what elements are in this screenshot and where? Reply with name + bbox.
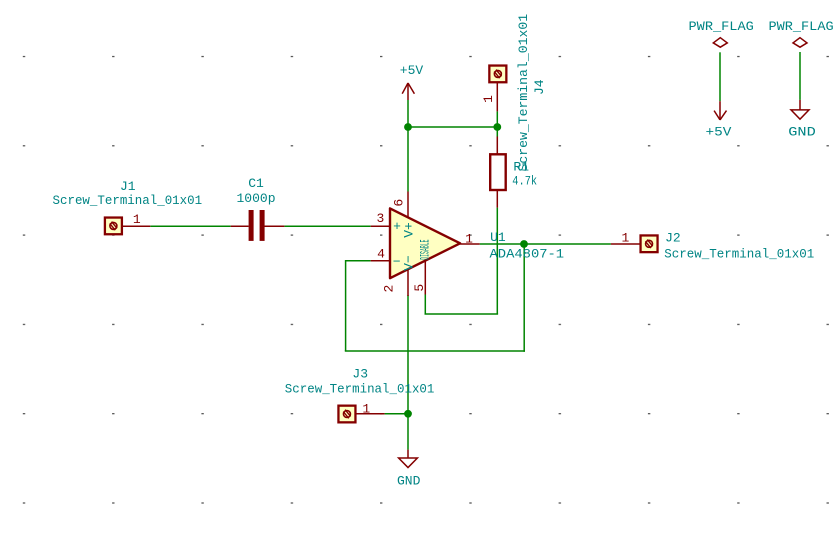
svg-text:1: 1 xyxy=(362,402,370,417)
svg-text:PWR_FLAG: PWR_FLAG xyxy=(689,19,754,34)
connector J3 xyxy=(338,406,384,423)
wire C1 to U1 pin 3 xyxy=(284,225,370,227)
wire J1 to C1 xyxy=(150,225,230,227)
PWR_FLAG 2 flag xyxy=(793,38,807,48)
svg-text:1: 1 xyxy=(621,230,629,245)
label GND xyxy=(397,473,421,488)
power +5V symbol xyxy=(402,83,414,100)
label PWR_FLAG 1 xyxy=(689,19,754,34)
svg-text:1: 1 xyxy=(133,212,141,227)
svg-text:6: 6 xyxy=(392,199,407,207)
svg-text:J4: J4 xyxy=(532,79,547,95)
value Screw_Terminal_01x01 of J3 xyxy=(285,382,435,397)
svg-text:1: 1 xyxy=(481,95,496,103)
pin 4 of U1 xyxy=(377,246,385,261)
wire pin 5 vertical xyxy=(424,295,426,315)
label J4 vertical xyxy=(532,79,547,95)
svg-text:Screw_Terminal_01x01: Screw_Terminal_01x01 xyxy=(53,193,203,208)
wire +5V vertical xyxy=(407,100,409,192)
label GND under PWR_FLAG 2 xyxy=(788,124,816,139)
pin 1 of J1 xyxy=(133,212,141,227)
pin name plus of U1 xyxy=(393,219,401,234)
label PWR_FLAG 2 xyxy=(769,19,834,34)
svg-text:4.7k: 4.7k xyxy=(512,174,537,189)
svg-text:1: 1 xyxy=(465,232,473,247)
value Screw_Terminal_01x01 of J4 vertical xyxy=(516,14,531,172)
wire J4 to R1 xyxy=(496,111,498,136)
connector J1 xyxy=(105,218,150,235)
pin 1 of J2 xyxy=(621,230,629,245)
svg-text:2: 2 xyxy=(382,285,397,293)
junction at J3 xyxy=(404,410,412,418)
wire feedback bottom xyxy=(345,350,525,352)
power +5V symbol under PWR_FLAG 1 xyxy=(714,101,726,120)
svg-text:GND: GND xyxy=(788,124,816,139)
value 4.7k of R1 xyxy=(512,174,537,189)
capacitor C1 xyxy=(231,210,285,241)
value Screw_Terminal_01x01 of J2 xyxy=(664,246,814,261)
pin name DISABLE of U1 vertical xyxy=(418,239,433,259)
value 1000p of C1 xyxy=(236,191,275,206)
wire feedback right vertical xyxy=(523,244,525,352)
svg-text:J3: J3 xyxy=(352,367,368,382)
svg-text:DISABLE: DISABLE xyxy=(418,239,433,259)
label +5V under PWR_FLAG 1 xyxy=(706,124,732,139)
svg-text:−: − xyxy=(393,255,401,270)
junction at output xyxy=(520,240,528,248)
value ADA4807-1 of U1 xyxy=(490,247,565,262)
label +5V xyxy=(400,63,424,78)
svg-text:Screw_Terminal_01x01: Screw_Terminal_01x01 xyxy=(516,14,531,172)
ground GND symbol xyxy=(399,450,418,468)
svg-text:4: 4 xyxy=(377,246,385,261)
wire output row xyxy=(480,243,611,245)
label J1 xyxy=(120,179,136,194)
svg-text:ADA4807-1: ADA4807-1 xyxy=(490,247,565,262)
pin 1 of J4 vertical xyxy=(481,95,496,103)
svg-text:GND: GND xyxy=(397,473,421,488)
ground GND symbol under PWR_FLAG 2 xyxy=(791,100,809,119)
label U1 xyxy=(490,230,506,245)
wire J3 row xyxy=(385,413,408,415)
pin 1 of J3 xyxy=(362,402,370,417)
svg-text:+5V: +5V xyxy=(400,63,424,78)
wire top horizontal xyxy=(408,126,497,128)
svg-text:V+: V+ xyxy=(401,222,416,238)
svg-text:C1: C1 xyxy=(248,176,264,191)
svg-text:J2: J2 xyxy=(665,230,681,245)
svg-text:5: 5 xyxy=(412,284,427,292)
pin 6 of U1 vertical xyxy=(392,199,407,207)
wire pin 5 bottom row xyxy=(425,313,499,315)
wire PWR_FLAG1 pole xyxy=(719,52,721,101)
wire R1 down xyxy=(496,208,498,314)
resistor R1 xyxy=(490,137,506,208)
svg-text:Screw_Terminal_01x01: Screw_Terminal_01x01 xyxy=(285,382,435,397)
wire PWR_FLAG2 pole xyxy=(799,52,801,100)
op-amp U1 xyxy=(371,192,480,297)
pin name V+ of U1 vertical xyxy=(401,222,416,238)
junction at +5V column xyxy=(404,123,412,131)
svg-text:J1: J1 xyxy=(120,179,136,194)
svg-text:1000p: 1000p xyxy=(236,191,275,206)
label R1 xyxy=(513,159,529,174)
svg-text:+: + xyxy=(393,219,401,234)
svg-text:U1: U1 xyxy=(490,230,506,245)
pin name V- of U1 vertical xyxy=(401,255,416,271)
svg-text:+5V: +5V xyxy=(706,124,732,139)
connector J2 xyxy=(611,235,658,252)
pin 1 of U1 xyxy=(465,232,473,247)
value Screw_Terminal_01x01 of J1 xyxy=(53,193,203,208)
pin 5 of U1 vertical xyxy=(412,284,427,292)
pin name minus of U1 xyxy=(393,255,401,270)
label J3 xyxy=(352,367,368,382)
svg-text:PWR_FLAG: PWR_FLAG xyxy=(769,19,834,34)
wire pin 2 to GND xyxy=(407,295,409,450)
connector J4 xyxy=(489,66,506,112)
junction at R1 top column xyxy=(493,123,501,131)
pin 3 of U1 xyxy=(376,211,384,226)
wire U1 pin 4 horizontal xyxy=(346,260,371,262)
PWR_FLAG 1 flag xyxy=(713,38,727,48)
svg-text:3: 3 xyxy=(376,211,384,226)
svg-text:V−: V− xyxy=(401,255,416,271)
pin 2 of U1 vertical xyxy=(382,285,397,293)
svg-text:Screw_Terminal_01x01: Screw_Terminal_01x01 xyxy=(664,246,814,261)
wire feedback left vertical xyxy=(345,260,347,351)
label J2 xyxy=(665,230,681,245)
label C1 xyxy=(248,176,264,191)
